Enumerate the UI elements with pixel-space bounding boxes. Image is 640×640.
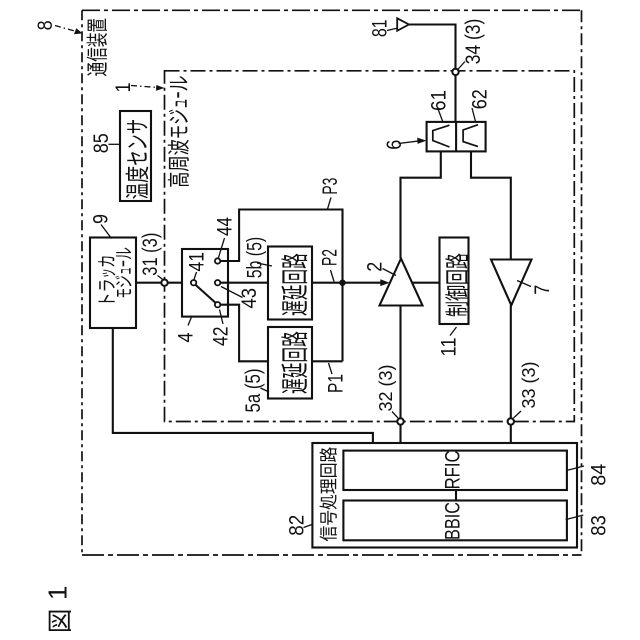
svg-text:11: 11 — [438, 338, 461, 357]
node 31 — [161, 280, 167, 286]
leader for 82 — [304, 525, 313, 528]
svg-text:P1: P1 — [324, 374, 347, 393]
BBIC box 83 — [343, 501, 567, 541]
duplexer box 6 — [427, 122, 486, 151]
leader for 11 — [450, 327, 457, 336]
svg-text:32 (3): 32 (3) — [376, 364, 396, 411]
leader for 31 — [158, 276, 164, 281]
temperature sensor box 85 — [120, 111, 151, 201]
filter 62 symbol — [463, 125, 478, 147]
wire duplexer top to node 34 and antenna — [409, 25, 456, 122]
leader for 34 — [458, 62, 465, 70]
wire RX apex down to node 33 and RFIC — [510, 305, 512, 450]
leader for 32 — [392, 412, 398, 419]
control circuit box 11 — [440, 238, 469, 325]
leader for 81 — [387, 28, 397, 30]
node 32 — [397, 418, 403, 424]
leader for 4 — [188, 317, 192, 326]
svg-text:33 (3): 33 (3) — [519, 361, 539, 408]
svg-text:82: 82 — [285, 515, 308, 536]
svg-text:P3: P3 — [319, 178, 342, 195]
leader for 85 — [109, 143, 121, 145]
tracker module box 9 — [90, 238, 136, 329]
wire duplexer right to RX amp — [471, 151, 511, 259]
leader for 62 — [472, 108, 476, 122]
leader for 2 — [383, 269, 397, 276]
leader for P3 — [328, 198, 332, 210]
node 33 — [508, 418, 514, 424]
delay circuit 5b box — [268, 247, 312, 320]
junction P2 — [339, 280, 345, 286]
svg-text:42: 42 — [210, 327, 233, 347]
svg-text:1: 1 — [112, 83, 135, 93]
leader for 1 — [131, 86, 158, 88]
svg-text:81: 81 — [368, 20, 391, 38]
leader for 41 — [194, 272, 197, 280]
signal processing circuit box 82 — [312, 443, 577, 548]
svg-text:1: 1 — [43, 586, 73, 600]
svg-text:31 (3): 31 (3) — [139, 233, 162, 276]
power amplifier 2 — [380, 259, 423, 306]
leader for 43 — [221, 287, 243, 298]
svg-text:BBIC: BBIC — [442, 502, 465, 540]
svg-text:85: 85 — [90, 133, 113, 153]
filter 61 symbol — [433, 125, 450, 147]
RFIC box 84 — [343, 451, 567, 490]
svg-text:5b (5): 5b (5) — [244, 237, 267, 279]
terminal 44 — [215, 258, 220, 263]
wire tracker to switch — [136, 282, 191, 284]
svg-text:2: 2 — [364, 262, 387, 272]
figure title 図1 — [49, 611, 71, 631]
svg-text:6: 6 — [383, 140, 406, 150]
wire PA to control circuit — [412, 282, 440, 284]
leader for 83 — [566, 515, 584, 520]
svg-text:44: 44 — [213, 217, 236, 236]
svg-text:P2: P2 — [318, 249, 341, 266]
wire PA base down to node 32 and RFIC — [399, 306, 401, 451]
wire tracker down to signal processing box — [113, 328, 373, 443]
leader for 84 — [567, 466, 584, 470]
inner dash-dot box: RF module 1 — [165, 71, 575, 422]
svg-text:62: 62 — [468, 89, 491, 109]
wire BBIC to RFIC — [455, 490, 457, 500]
node 34 — [452, 69, 458, 75]
switch arm — [195, 285, 216, 304]
svg-text:7: 7 — [531, 285, 554, 295]
terminal 43 — [215, 280, 220, 285]
wire P2 to PA input with arrow — [343, 282, 385, 284]
leader for P2 — [331, 270, 335, 282]
leader for 42 — [220, 310, 224, 325]
switch box 4 — [182, 249, 228, 317]
svg-text:61: 61 — [427, 90, 450, 111]
leader for 5a — [261, 388, 270, 392]
leader for 9 — [101, 225, 112, 239]
svg-text:34 (3): 34 (3) — [462, 19, 485, 65]
leader for P1 — [329, 363, 333, 374]
wire 43 to delay 5b — [220, 282, 268, 284]
antenna 81 — [397, 18, 409, 31]
svg-text:41: 41 — [186, 252, 209, 272]
label 高周波モジュール — [168, 76, 189, 186]
wire 5a out to P1 — [312, 360, 343, 362]
svg-text:84: 84 — [587, 463, 610, 485]
wire PA apex up to duplexer — [401, 151, 441, 258]
leader for 33 — [514, 411, 522, 418]
svg-text:83: 83 — [587, 515, 610, 536]
wire 44 bypass path P3 — [220, 210, 343, 362]
label 通信装置 — [87, 19, 108, 76]
svg-text:8: 8 — [34, 20, 57, 30]
svg-text:9: 9 — [90, 214, 113, 224]
leader arrow for 6 — [399, 141, 421, 144]
leader for 5b — [257, 263, 272, 266]
svg-text:RFIC: RFIC — [442, 450, 465, 489]
leader for 61 — [438, 108, 443, 122]
svg-text:43: 43 — [238, 288, 261, 309]
delay circuit 5a box — [268, 327, 312, 399]
leader for 8 — [55, 26, 78, 33]
outer dashed box: communication device 8 — [82, 9, 582, 11]
leader for 7 — [517, 281, 531, 287]
svg-text:4: 4 — [174, 332, 197, 342]
svg-text:5a (5): 5a (5) — [242, 369, 265, 413]
terminal 42 — [215, 302, 220, 307]
receive amplifier 7 — [491, 260, 532, 306]
terminal 41 — [191, 280, 196, 285]
wire 5b out to P2 — [312, 282, 343, 284]
leader for 44 — [219, 238, 225, 258]
wire 42 to delay 5a — [220, 305, 268, 362]
